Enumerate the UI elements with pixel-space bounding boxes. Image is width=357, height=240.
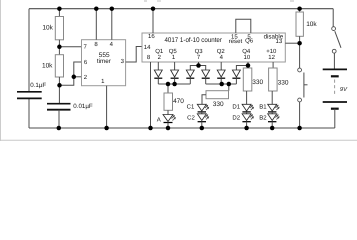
wire 555 pin3 to 4017 pin14: [126, 47, 142, 63]
svg-text:4017 1-of-10 counter: 4017 1-of-10 counter: [164, 37, 222, 44]
svg-text:B1: B1: [259, 104, 267, 111]
svg-text:470: 470: [173, 98, 184, 105]
svg-text:330: 330: [278, 79, 289, 86]
diode D-c (pin7 left): [186, 70, 194, 84]
resistor R1 10k (left top): [58, 9, 60, 17]
diode D-e (pin4): [217, 70, 225, 84]
wire 555 pin6 branch: [60, 62, 82, 85]
svg-text:10k: 10k: [42, 62, 53, 69]
svg-text:Q4: Q4: [242, 48, 251, 55]
LED C2: [197, 112, 209, 128]
svg-text:reset: reset: [229, 39, 243, 45]
LED D1: [242, 104, 254, 112]
resistor R7 330 vertical (pin12): [269, 68, 278, 91]
wires 4017 outputs to diodes: [157, 62, 159, 70]
wire right rail to switch: [332, 9, 334, 27]
svg-text:Q6: Q6: [245, 38, 254, 45]
capacitor C-0.1uF plates: [17, 91, 42, 93]
resistor R6 330 vertical (pin10): [243, 68, 252, 91]
diode D-f (pin10 left): [232, 70, 240, 84]
svg-text:B2: B2: [259, 114, 267, 121]
svg-text:C2: C2: [187, 114, 195, 121]
junction dots bottom rail: [57, 126, 62, 131]
svg-text:0.1µF: 0.1µF: [30, 82, 46, 89]
wire bottom ground rail: [29, 127, 335, 129]
svg-text:D2: D2: [232, 114, 240, 121]
svg-text:timer: timer: [97, 58, 111, 65]
wire cathode bus right: [206, 83, 237, 85]
diode D-b (pin1): [171, 70, 179, 84]
wire 4017 pin13 to 10k: [285, 42, 299, 44]
op-amp U1 555 timer box: [82, 40, 126, 86]
wire 4017 pin16 to rail: [152, 9, 154, 33]
wire 555 pin1 to ground: [106, 86, 108, 128]
svg-text:13: 13: [276, 38, 283, 45]
svg-text:D1: D1: [232, 104, 240, 111]
svg-text:330: 330: [252, 79, 263, 86]
LED D2: [242, 112, 254, 128]
diode D-a (pin2): [154, 70, 162, 84]
junction dots top rail: [57, 6, 62, 11]
wire cathode bus left: [158, 83, 190, 85]
resistor R4 470: [167, 84, 169, 93]
svg-text:10k: 10k: [42, 24, 53, 31]
battery BT1 9V: [323, 68, 347, 70]
svg-text:Q3: Q3: [195, 48, 204, 55]
svg-text:9V: 9V: [340, 86, 348, 93]
svg-text:10: 10: [244, 54, 251, 61]
wire top supply rail: [29, 8, 333, 10]
wire 555 pin4 to rail: [111, 9, 113, 40]
pushbutton S1: [298, 68, 302, 72]
svg-text:+10: +10: [266, 48, 277, 55]
wire 555 pin8 to rail: [95, 9, 97, 40]
switch S2 (toggle, open): [332, 27, 336, 31]
svg-text:12: 12: [268, 54, 275, 61]
resistor R5 330 horizontal: [228, 84, 230, 91]
LED C1: [197, 104, 209, 112]
svg-text:Q2: Q2: [217, 48, 226, 55]
svg-text:Q5: Q5: [169, 48, 178, 55]
svg-text:Q1: Q1: [155, 48, 164, 55]
wire 555 pin2 stub: [74, 76, 82, 78]
svg-text:C1: C1: [187, 104, 195, 111]
wire left rail upper: [28, 9, 30, 92]
resistor R2 10k (left lower): [58, 47, 60, 55]
wire 4017 pin8 to ground: [150, 62, 152, 128]
svg-text:10k: 10k: [306, 21, 317, 28]
svg-text:14: 14: [144, 44, 151, 51]
junction dots mid: [57, 45, 62, 50]
wire reset loop pins 15-5: [236, 19, 251, 33]
svg-text:16: 16: [148, 33, 155, 40]
IC U2 4017 box: [142, 33, 285, 62]
scan edge artifacts: [0, 0, 2, 141]
diode D-d (pin7 right): [202, 70, 210, 84]
LED B2: [268, 112, 280, 128]
wire 555 pin7 from R1/R2 junction: [59, 46, 81, 48]
LED B1: [268, 104, 280, 112]
svg-text:0.01µF: 0.01µF: [73, 103, 93, 110]
LED A: [163, 115, 176, 129]
wire left rail lower: [28, 98, 30, 128]
resistor R3 10k (right): [299, 9, 301, 12]
svg-text:A: A: [157, 116, 161, 123]
svg-text:330: 330: [213, 101, 224, 108]
capacitor C-0.01uF plates: [47, 103, 71, 105]
